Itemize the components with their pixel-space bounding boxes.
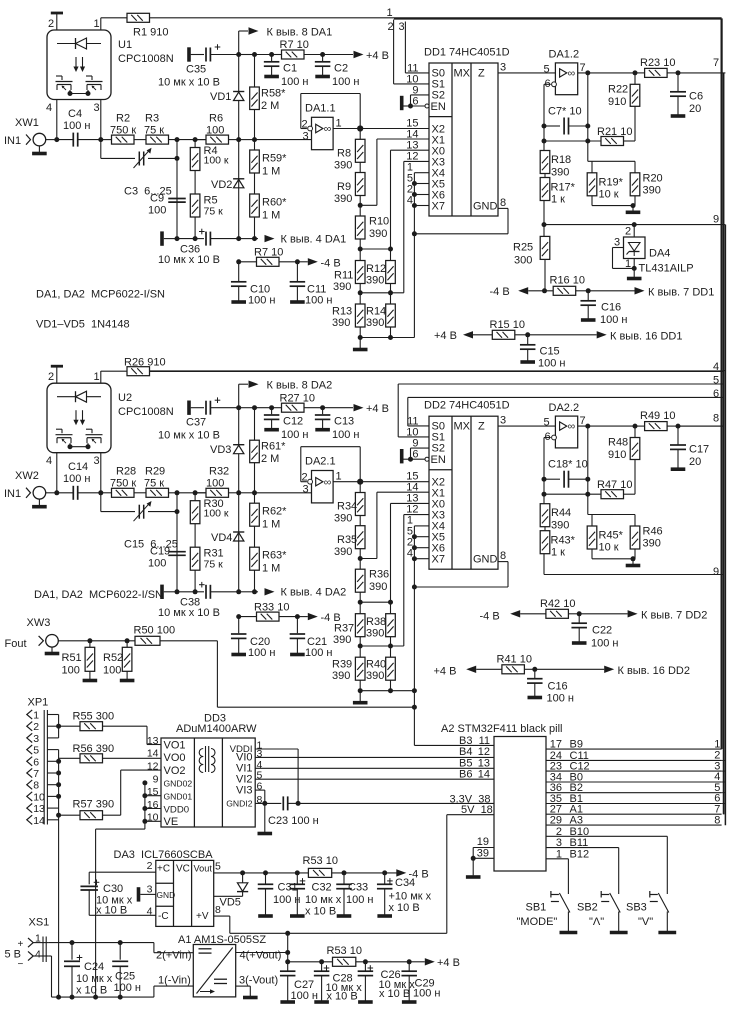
wire 5V — [447, 814, 494, 816]
svg-text:5: 5 — [544, 64, 550, 76]
svg-text:1 М: 1 М — [262, 210, 280, 222]
svg-text:9: 9 — [153, 773, 159, 785]
net arrow К выв. 8 DA1 — [238, 31, 240, 55]
shunt regulator DA4 body — [624, 237, 646, 259]
svg-text:2: 2 — [33, 721, 39, 733]
resistor R14 — [386, 304, 396, 327]
svg-text:VO0: VO0 — [164, 752, 186, 764]
svg-text:2: 2 — [388, 21, 394, 33]
svg-text:VD4: VD4 — [211, 532, 232, 544]
svg-text:R15 10: R15 10 — [490, 319, 525, 331]
svg-text:C37: C37 — [186, 417, 206, 429]
svg-text:R47 10: R47 10 — [597, 479, 632, 491]
svg-text:100 к: 100 к — [204, 508, 229, 520]
resistor R29 — [134, 492, 146, 494]
svg-text:R8: R8 — [337, 148, 351, 160]
svg-text:100: 100 — [148, 205, 166, 217]
svg-text:100 н: 100 н — [305, 295, 332, 307]
net 2 stub to S1 — [393, 20, 395, 84]
wire U1 pin1 up — [100, 18, 102, 30]
wire +Vout — [236, 952, 288, 954]
svg-text:DA1, DA2 MCP6022-I/SN: DA1, DA2 MCP6022-I/SN — [34, 589, 163, 601]
svg-text:VO2: VO2 — [164, 765, 186, 777]
svg-text:2: 2 — [625, 226, 631, 238]
wire node to opamp pin3 — [255, 139, 312, 141]
op-amp DA2.1 — [312, 471, 334, 503]
svg-text:R53 10: R53 10 — [327, 945, 362, 957]
svg-text:C13: C13 — [334, 416, 354, 428]
wire R43 to net9b — [543, 554, 545, 575]
resistor R34 — [359, 482, 361, 493]
wire U1 pin3 down — [100, 100, 102, 140]
shunt regulator DA4 symbol — [629, 243, 641, 252]
svg-text:XS1: XS1 — [29, 917, 50, 929]
svg-text:390: 390 — [333, 634, 351, 646]
svg-text:C2: C2 — [334, 63, 348, 75]
svg-text:1: 1 — [33, 710, 39, 722]
resistor R4 — [194, 140, 196, 148]
svg-text:+C: +C — [157, 864, 170, 875]
wire XP1 pins 1-3 tie — [58, 715, 60, 738]
resistor R28 — [101, 492, 112, 494]
svg-text:1: 1 — [625, 258, 631, 270]
wire C3 bypass — [100, 140, 102, 159]
svg-text:-4 В: -4 В — [321, 612, 341, 624]
resistor R15 — [492, 330, 515, 339]
op-amp DA2.2 out junction — [578, 425, 635, 427]
svg-text:К выв. 4 DA1: К выв. 4 DA1 — [281, 234, 347, 246]
resistor R53a — [308, 868, 331, 877]
svg-text:390: 390 — [334, 193, 352, 205]
net 3 stub to S0 — [404, 22, 406, 73]
net arrow -4 V bottom — [396, 869, 406, 876]
svg-text:R44: R44 — [551, 507, 571, 519]
capacitor C9 — [176, 158, 178, 238]
svg-text:R34: R34 — [337, 501, 357, 513]
svg-text:R3: R3 — [145, 113, 159, 125]
svg-text:300: 300 — [514, 255, 532, 267]
button SB3 — [650, 894, 658, 896]
svg-text:C31: C31 — [278, 882, 298, 894]
svg-text:C23 100 н: C23 100 н — [268, 815, 319, 827]
optocoupler U1 output MOSFET B — [86, 75, 92, 77]
svg-text:C34: C34 — [395, 877, 415, 889]
svg-text:"MODE": "MODE" — [517, 916, 558, 928]
wire to R19 R20 top row — [587, 141, 589, 161]
capacitor C14 — [72, 486, 74, 500]
net arrow -4 V — [297, 261, 307, 263]
svg-text:X7: X7 — [432, 554, 445, 566]
svg-text:10 мк x 10 В: 10 мк x 10 В — [158, 607, 220, 619]
optocoupler U1 light arrows — [75, 57, 77, 69]
resistor R31 — [194, 524, 196, 548]
svg-text:C4: C4 — [68, 108, 82, 120]
svg-text:DA3 ICL7660SCBA: DA3 ICL7660SCBA — [114, 849, 214, 861]
wire Fout line — [58, 640, 135, 642]
capacitor C32 — [296, 873, 298, 884]
svg-text:14: 14 — [478, 768, 490, 780]
svg-text:VD1: VD1 — [210, 91, 231, 103]
op-amp DA1.1 — [312, 117, 334, 149]
capacitor C36 — [164, 238, 177, 240]
net line out to bus — [678, 72, 723, 74]
wire DA4 pin1 ground — [633, 259, 635, 278]
capacitor C30 loop — [89, 871, 156, 873]
svg-text:DA2.2: DA2.2 — [549, 402, 580, 414]
resistor R36 — [355, 569, 365, 592]
mux DD2 Z out wire — [498, 425, 555, 427]
svg-text:100 н: 100 н — [332, 76, 359, 88]
svg-text:R63*: R63* — [262, 550, 287, 562]
svg-text:R20: R20 — [643, 173, 663, 185]
svg-text:C16: C16 — [601, 302, 621, 314]
net 9 line DA2 section — [544, 574, 723, 576]
net 9 line DA1 section — [544, 224, 723, 226]
svg-text:6: 6 — [33, 756, 39, 768]
wire U2 pin3 down — [100, 453, 102, 493]
svg-text:750 к: 750 к — [110, 478, 136, 490]
svg-text:100 н: 100 н — [346, 894, 373, 906]
net arrow К выв. 4 DA2 — [265, 588, 275, 595]
op-amp DA1.2 out junction — [578, 72, 635, 74]
svg-text:B6: B6 — [459, 768, 472, 780]
svg-text:3: 3 — [614, 237, 620, 249]
capacitor C37 — [191, 407, 204, 409]
ladder ground — [359, 338, 361, 350]
wire -Vout — [236, 985, 251, 987]
wire U2 pin4 down — [56, 453, 58, 493]
svg-text:C6: C6 — [689, 91, 703, 103]
svg-text:2 М: 2 М — [261, 100, 279, 112]
svg-text:XW3: XW3 — [27, 617, 51, 629]
resistor R38 — [390, 602, 392, 614]
svg-text:39: 39 — [477, 848, 489, 860]
wire pin6 feedback column — [544, 83, 551, 85]
resistor R57 — [59, 814, 80, 816]
resistor R45* — [591, 515, 593, 527]
local ground bar for C37 — [187, 401, 191, 415]
resistor R44 — [540, 504, 550, 527]
wire VI3 tie — [255, 789, 265, 791]
resistor R6 — [195, 139, 206, 141]
svg-text:8: 8 — [713, 413, 719, 425]
wire out down to R21 line — [587, 426, 589, 494]
svg-text:U2: U2 — [118, 392, 132, 404]
resistor R42 — [546, 609, 569, 618]
wire VI1 B5 line — [255, 767, 494, 769]
R19 R20 bottom row — [591, 196, 593, 206]
net 5 line — [398, 383, 723, 385]
wire node to opamp pin3 — [255, 492, 312, 494]
svg-text:R6: R6 — [209, 113, 223, 125]
capacitor C10 — [238, 262, 240, 281]
svg-text:∞: ∞ — [324, 476, 332, 488]
svg-text:x 10 В: x 10 В — [76, 985, 107, 997]
svg-text:DA4: DA4 — [649, 248, 670, 260]
svg-text:C18* 10: C18* 10 — [548, 459, 588, 471]
wire out down to R21 line — [587, 73, 589, 141]
svg-text:R21 10: R21 10 — [597, 126, 632, 138]
svg-text:5: 5 — [33, 745, 39, 757]
svg-text:К выв. 8 DA1: К выв. 8 DA1 — [267, 27, 333, 39]
capacitor C38 — [164, 591, 177, 593]
svg-text:U1: U1 — [118, 39, 132, 51]
svg-text:VE: VE — [164, 816, 179, 828]
net arrow -4 V left — [518, 287, 528, 294]
mux DD2 body — [429, 416, 498, 569]
wire +V column — [287, 933, 289, 962]
svg-text:MX: MX — [454, 421, 471, 433]
capacitor C19 — [176, 512, 178, 592]
capacitor C35 — [191, 54, 204, 56]
net arrow К выв. 16 DD2 — [535, 668, 604, 670]
svg-text:10: 10 — [33, 791, 45, 803]
wire node VD column — [236, 490, 241, 495]
bus stub net4 — [723, 370, 725, 372]
svg-text:GND02: GND02 — [164, 779, 193, 789]
svg-text:R11: R11 — [334, 270, 353, 282]
svg-text:75 к: 75 к — [204, 206, 224, 218]
svg-text:R49 10: R49 10 — [640, 410, 675, 422]
svg-text:+4 В: +4 В — [434, 330, 457, 342]
svg-text:VD3: VD3 — [210, 444, 231, 456]
net line out to bus — [678, 425, 723, 427]
svg-text:100: 100 — [148, 558, 166, 570]
bus stubs STM rows — [722, 759, 726, 761]
svg-text:10 мк x: 10 мк x — [305, 894, 342, 906]
svg-text:R27 10: R27 10 — [280, 392, 315, 404]
net arrow К выв. 4 DA1 — [265, 235, 275, 242]
svg-text:4: 4 — [713, 361, 719, 373]
svg-text:1: 1 — [94, 371, 100, 383]
connector XW3 jack — [46, 635, 59, 648]
svg-text:C15: C15 — [540, 346, 560, 358]
R19 R20 bottom row — [591, 549, 593, 559]
svg-text:VC: VC — [176, 864, 190, 875]
dc-dc A1 body — [193, 945, 235, 997]
svg-text:14: 14 — [33, 815, 45, 827]
svg-text:2 М: 2 М — [261, 453, 279, 465]
resistor R48 — [634, 426, 636, 437]
wire DA4 pin2 — [633, 225, 635, 237]
resistor R37 — [355, 614, 365, 637]
svg-text:3: 3 — [303, 484, 309, 496]
wire after R3 — [169, 139, 207, 141]
svg-text:15: 15 — [147, 786, 159, 798]
svg-text:8: 8 — [257, 794, 263, 806]
resistor R26 — [101, 370, 127, 372]
svg-text:19: 19 — [477, 836, 489, 848]
svg-text:x 10 В: x 10 В — [379, 988, 410, 1000]
wire 3.3V line — [298, 802, 494, 804]
resistor R10 — [355, 216, 365, 239]
svg-text:100 н: 100 н — [273, 894, 300, 906]
resistor R52 — [126, 641, 128, 648]
svg-text:R53 10: R53 10 — [303, 855, 338, 867]
capacitor C22 — [578, 614, 580, 623]
svg-text:3: 3 — [33, 733, 39, 745]
svg-text:100 н: 100 н — [547, 693, 574, 705]
svg-text:C3 6...25: C3 6...25 — [124, 186, 172, 198]
svg-text:2: 2 — [48, 18, 54, 30]
svg-text:IN1: IN1 — [4, 135, 21, 147]
optocoupler U2 body — [47, 383, 111, 453]
resistor R56 — [59, 757, 80, 759]
wire DA3 +V — [214, 915, 230, 917]
svg-text:R9: R9 — [337, 181, 351, 193]
svg-text:DA1.1: DA1.1 — [305, 103, 336, 115]
optocoupler U2 output MOSFET B — [86, 428, 92, 430]
svg-text:R43*: R43* — [551, 535, 576, 547]
connector XW2 ground — [38, 499, 40, 507]
svg-text:100: 100 — [206, 125, 224, 137]
dc-dc A1 symbol — [197, 948, 233, 994]
resistor R21 — [544, 140, 601, 142]
svg-text:VD5: VD5 — [220, 897, 241, 909]
wire +Vin — [48, 942, 153, 944]
wire VDDI to 3.3V — [255, 748, 298, 750]
wire VI2 B6 line — [255, 778, 494, 780]
resistor R41 — [502, 665, 525, 674]
svg-text:R56 390: R56 390 — [73, 743, 115, 755]
bus stub net9 — [723, 224, 725, 226]
svg-text:∞: ∞ — [568, 68, 576, 80]
svg-text:R48: R48 — [608, 437, 628, 449]
svg-text:390: 390 — [366, 628, 384, 640]
isolator DD3 transformer — [205, 746, 207, 772]
svg-text:7: 7 — [713, 57, 719, 69]
bus net1 right edge — [394, 17, 722, 19]
svg-text:VO1: VO1 — [164, 739, 186, 751]
resistor R7 — [239, 261, 257, 263]
svg-text:R2: R2 — [116, 113, 130, 125]
svg-text:C12: C12 — [283, 416, 303, 428]
optocoupler U2 light arrows — [75, 410, 77, 422]
diode VD5 — [242, 873, 244, 883]
capacitor C16 second — [534, 669, 536, 678]
svg-text:6: 6 — [713, 388, 719, 400]
resistor R5 — [194, 171, 196, 195]
capacitor C31 — [265, 873, 267, 884]
bus right edge second — [723, 73, 725, 815]
svg-text:R50 100: R50 100 — [134, 625, 176, 637]
wire DA2.1 out to X2 — [360, 481, 429, 483]
svg-text:C32: C32 — [312, 882, 332, 894]
svg-text:7: 7 — [580, 62, 586, 74]
svg-text:R55 300: R55 300 — [73, 711, 115, 723]
optocoupler U1 internal LED diode — [57, 43, 101, 45]
svg-text:-4 В: -4 В — [321, 257, 341, 269]
svg-text:GND01: GND01 — [164, 792, 193, 802]
resistor R51 — [89, 641, 91, 648]
svg-text:100 н: 100 н — [538, 358, 565, 370]
wire B12 to SB1 — [546, 858, 568, 860]
connector XP1 body — [43, 710, 45, 825]
svg-text:ADuM1400ARW: ADuM1400ARW — [176, 723, 257, 735]
svg-text:R59*: R59* — [262, 153, 287, 165]
wire +4V rail — [288, 961, 333, 963]
svg-text:VD2: VD2 — [211, 179, 232, 191]
wire R50 to tie — [216, 641, 218, 707]
charge pump DA3 gnd bar — [140, 893, 156, 895]
wire R25 to R16 line — [544, 259, 546, 290]
svg-text:1: 1 — [336, 118, 342, 130]
bus right edge third — [724, 225, 726, 826]
isolator DD3 body — [161, 738, 255, 827]
net 8 line — [678, 425, 723, 427]
resistor R59* — [254, 110, 256, 140]
ground GNDI2 — [264, 803, 266, 833]
svg-text:3: 3 — [94, 102, 100, 114]
wire -Vin — [51, 956, 53, 997]
wire R21 line to divider — [543, 141, 545, 151]
svg-text:4(+Vout): 4(+Vout) — [240, 950, 282, 962]
wire DA1.1 out to X2 — [360, 128, 429, 130]
svg-text:A2 STM32F411 black pill: A2 STM32F411 black pill — [441, 723, 562, 735]
svg-text:10 мк x 10 В: 10 мк x 10 В — [158, 77, 220, 89]
svg-text:100 н: 100 н — [291, 990, 318, 1002]
svg-text:4: 4 — [46, 102, 52, 114]
svg-text:R37: R37 — [334, 623, 354, 635]
svg-text:R13: R13 — [332, 306, 352, 318]
svg-text:GNDI2: GNDI2 — [226, 799, 252, 809]
mcu A2 body — [494, 737, 546, 872]
svg-text:1(-Vin): 1(-Vin) — [158, 975, 191, 987]
diode VD3 — [233, 444, 244, 446]
ladder junction X1 — [359, 196, 361, 217]
wire U1 pin4 down — [56, 100, 58, 140]
wire X4-X7 common tie — [413, 173, 415, 234]
net arrow +4 V top — [323, 54, 353, 56]
svg-text:VDD0: VDD0 — [164, 804, 190, 815]
svg-text:3(-Vout): 3(-Vout) — [239, 975, 278, 987]
svg-text:К выв. 7 DD2: К выв. 7 DD2 — [641, 610, 707, 622]
wire node VD column — [236, 137, 241, 142]
net arrow К выв. 7 DD2 — [579, 613, 627, 615]
svg-text:R40: R40 — [366, 659, 386, 671]
svg-text:XP1: XP1 — [28, 697, 49, 709]
wire after R3 — [169, 492, 207, 494]
svg-text:К выв. 16 DD1: К выв. 16 DD1 — [610, 331, 682, 343]
svg-text:C30: C30 — [103, 883, 123, 895]
svg-text:100 н: 100 н — [248, 295, 275, 307]
wire VD column lower — [238, 140, 240, 239]
resistor R19* — [591, 161, 593, 173]
wire VD column upper — [238, 55, 240, 140]
svg-text:R10: R10 — [369, 216, 389, 228]
svg-text:100 н: 100 н — [63, 120, 90, 132]
wire R17 to net9 — [543, 201, 545, 237]
svg-text:4: 4 — [407, 548, 413, 560]
capacitor C13 — [322, 408, 324, 415]
svg-text:x 10 В: x 10 В — [305, 906, 336, 918]
svg-text:R33 10: R33 10 — [254, 601, 289, 613]
svg-text:75 к: 75 к — [144, 125, 164, 137]
diode VD2 — [233, 178, 244, 180]
svg-text:CPC1008N: CPC1008N — [118, 406, 174, 418]
svg-text:390: 390 — [643, 538, 661, 550]
svg-text:1 к: 1 к — [551, 194, 565, 206]
optocoupler U1 source link — [70, 93, 88, 95]
svg-text:VI3: VI3 — [236, 784, 253, 796]
svg-text:390: 390 — [551, 167, 569, 179]
resistor R30 — [194, 493, 196, 501]
svg-text:3: 3 — [147, 884, 153, 896]
svg-text:R22: R22 — [608, 84, 628, 96]
svg-text:DA1.2: DA1.2 — [549, 49, 580, 61]
svg-text:20: 20 — [689, 456, 701, 468]
svg-text:XW1: XW1 — [15, 117, 39, 129]
